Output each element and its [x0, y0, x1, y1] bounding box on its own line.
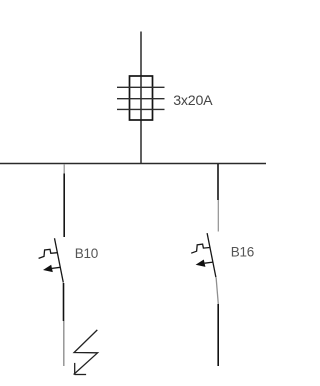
outgoing feeder arrow (zigzag): [74, 330, 98, 375]
wire breaker Q2 down (light part): [216, 278, 218, 305]
wire bus to breaker Q2: [217, 164, 219, 200]
svg-text:3x20A: 3x20A: [173, 93, 213, 109]
wire incoming feed: [140, 32, 142, 77]
svg-text:B16: B16: [231, 244, 254, 259]
breaker Q1 (B10): [39, 238, 64, 282]
wire breaker Q2 down (dark part): [217, 304, 219, 366]
wire bus to breaker Q1: [63, 174, 65, 238]
wire fuse to bus: [140, 120, 142, 164]
phase line 3: [117, 108, 165, 110]
wire bus to breaker Q2 (light lead): [217, 200, 219, 232]
bus bar: [0, 163, 266, 165]
svg-text:B10: B10: [75, 246, 98, 261]
phase line 1: [117, 86, 165, 88]
fuse-switch F1 body: [130, 76, 153, 120]
wire breaker Q1 down (dark part): [63, 283, 65, 321]
wire bus to breaker Q1 (light lead): [63, 164, 65, 174]
phase line 2: [117, 98, 165, 100]
wire breaker Q1 down (light part): [63, 321, 65, 366]
breaker Q2 (B16): [191, 233, 216, 277]
wire through fuse: [140, 76, 142, 120]
